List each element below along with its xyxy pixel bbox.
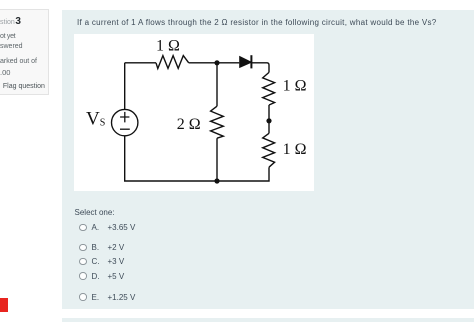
option E [79,293,86,300]
Select one: [75,208,115,217]
option B [79,244,86,251]
wire 2ohm branch top [216,63,218,106]
svg-text:1 Ω: 1 Ω [283,141,307,158]
option D [79,272,86,279]
svg-text:2 Ω: 2 Ω [177,116,201,133]
question info box (cut off at left) [0,9,49,95]
node B junction dot right [266,118,271,123]
wire source to top-left corner [124,63,126,110]
resistor R4 2ohm middle [211,106,224,138]
wire 2ohm branch bottom [216,138,218,181]
voltage source plus sign [120,112,129,123]
option A [79,224,86,231]
wire diode-to-corner and right branch top [251,63,269,73]
voltage source minus sign [120,128,130,130]
resistor R2 1ohm upper-right [263,72,275,105]
red marker bottom-left [0,298,8,312]
node C junction dot bottom [214,178,219,183]
'Not yet answered' [0,33,15,40]
circuit schematic svg [74,34,314,191]
white circuit image box [74,34,314,191]
option C [79,258,86,265]
wire right-bottom corner [217,167,269,181]
question text [77,18,437,27]
svg-text:1 Ω: 1 Ω [283,78,307,95]
svg-text:1 Ω: 1 Ω [156,38,180,55]
node A junction dot top [214,60,219,65]
svg-text:VS: VS [86,109,105,130]
next question panel strip at bottom [62,318,474,322]
wire top-left segment [125,62,156,64]
'Flag question' [3,83,45,90]
'Marked out of 1.00' [0,58,37,65]
wire bottom-left segment [125,136,217,181]
voltage source Vs circle [112,109,138,135]
diode D1 [239,55,251,68]
resistor R3 1ohm lower-right [263,133,275,167]
wire top-middle segment [189,62,240,64]
wire between R2 and node B [268,105,270,133]
'Question 3' heading [0,17,21,28]
resistor R1 1ohm top [156,56,189,69]
